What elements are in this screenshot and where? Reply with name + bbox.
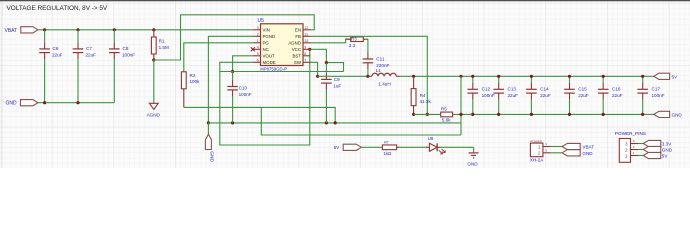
connector J3 POWER_PINS: [615, 131, 646, 162]
resistor R1: [151, 30, 169, 60]
svg-text:C12: C12: [482, 87, 491, 92]
svg-text:R4: R4: [420, 93, 426, 98]
node junction C16 bottom: [602, 113, 605, 116]
node junction VIN-R1: [152, 28, 155, 31]
wire J3 pin 1: [638, 155, 643, 157]
svg-text:2: 2: [545, 149, 547, 153]
resistor R4: [411, 76, 431, 114]
svg-text:VOUT: VOUT: [263, 53, 276, 58]
svg-text:22uF: 22uF: [578, 93, 589, 98]
power flag VBAT J2: [562, 143, 594, 149]
wire sense drop: [460, 76, 462, 135]
svg-text:C6: C6: [53, 46, 59, 51]
wire MODE loop: [220, 49, 310, 145]
node junction C16 top: [602, 75, 605, 78]
svg-text:100nF: 100nF: [482, 93, 495, 98]
svg-text:22uF: 22uF: [612, 93, 623, 98]
connector J2 XH-2A: [530, 139, 551, 162]
svg-text:GND: GND: [467, 161, 478, 166]
svg-text:L1: L1: [376, 68, 382, 73]
node junction C11-SW: [366, 75, 369, 78]
svg-text:GND: GND: [672, 113, 683, 118]
node junction R2-gnd: [334, 121, 337, 124]
svg-text:8: 8: [304, 52, 306, 56]
wire VIN rail: [38, 29, 253, 31]
svg-text:GND: GND: [208, 151, 214, 162]
svg-text:1.4uH: 1.4uH: [378, 82, 390, 87]
svg-text:GND: GND: [662, 147, 673, 152]
svg-text:VCC: VCC: [292, 47, 301, 52]
svg-text:3: 3: [633, 139, 635, 143]
svg-text:R1: R1: [159, 39, 165, 44]
svg-text:C7: C7: [86, 46, 92, 51]
node junction C15 bottom: [568, 113, 571, 116]
svg-text:1: 1: [545, 142, 547, 146]
resistor R7: [382, 141, 399, 156]
integrated circuit U5 MP8759GD-P: [251, 18, 311, 71]
node junction VIN-C8: [113, 28, 116, 31]
svg-text:5V: 5V: [334, 145, 341, 150]
power flag 3.3V J3: [643, 140, 672, 146]
wire R7 to LED: [399, 146, 426, 148]
resistor R2: [181, 72, 200, 108]
wire output rail: [400, 75, 654, 77]
svg-text:100nF: 100nF: [239, 92, 252, 97]
svg-text:POWER_PINS: POWER_PINS: [615, 131, 646, 136]
node junction sense-bot: [459, 113, 462, 116]
ground flag GND rotated: [205, 123, 214, 163]
svg-text:1: 1: [538, 144, 541, 149]
LED U6: [426, 136, 445, 154]
wire GND rail left: [38, 102, 114, 104]
svg-text:4: 4: [257, 45, 259, 49]
node junction VIN-C6: [43, 28, 46, 31]
svg-text:10: 10: [304, 39, 308, 43]
wire LED to GND: [441, 147, 474, 153]
svg-text:22uF: 22uF: [86, 53, 97, 58]
ground AGND: [147, 60, 161, 117]
wire VCC: [311, 49, 344, 71]
node junction VCC-C9: [325, 61, 328, 64]
inductor L1: [368, 68, 400, 86]
svg-text:C8: C8: [123, 46, 129, 51]
power flag GND output: [654, 111, 683, 117]
wire lower link A: [261, 107, 461, 135]
svg-text:VOLTAGE REGULATION, 8V -> 5V: VOLTAGE REGULATION, 8V -> 5V: [7, 5, 108, 12]
wire R2 to ground rail: [184, 107, 335, 123]
capacitor C6: [39, 30, 62, 103]
wire PGND drop: [208, 36, 253, 123]
capacitor C16: [598, 76, 623, 114]
svg-text:11: 11: [304, 32, 308, 36]
node junction C14 top: [530, 75, 533, 78]
svg-text:3.3V: 3.3V: [662, 141, 672, 146]
resistor R5: [441, 106, 453, 122]
node junction GND-C7: [76, 101, 79, 104]
svg-text:MODE: MODE: [263, 60, 276, 65]
wire VOUT drop: [233, 56, 253, 72]
svg-text:22uF: 22uF: [52, 53, 63, 58]
node junction SW rail: [316, 75, 319, 78]
svg-text:6: 6: [257, 58, 259, 62]
node junction C17 top: [641, 75, 644, 78]
svg-text:100nF: 100nF: [122, 53, 135, 58]
svg-text:PGND: PGND: [263, 34, 276, 39]
svg-text:1.5M: 1.5M: [159, 45, 169, 50]
svg-text:3.3: 3.3: [349, 43, 356, 48]
svg-text:3: 3: [257, 26, 259, 30]
svg-text:MP8759GD-P: MP8759GD-P: [260, 66, 287, 71]
svg-text:VBAT: VBAT: [5, 28, 18, 34]
sheet title: [7, 5, 108, 12]
svg-text:1: 1: [625, 153, 628, 158]
capacitor C7: [73, 30, 96, 103]
svg-text:5V: 5V: [672, 74, 679, 79]
svg-text:1: 1: [257, 39, 259, 43]
svg-text:1kΩ: 1kΩ: [383, 151, 392, 156]
node junction GND-C6: [43, 101, 46, 104]
svg-text:5: 5: [257, 52, 259, 56]
node junction C17 bottom: [641, 113, 644, 116]
svg-text:GND: GND: [6, 101, 18, 107]
power flag GND J2: [562, 150, 593, 156]
svg-text:AGND: AGND: [147, 112, 161, 117]
svg-text:2: 2: [633, 145, 635, 149]
power flag GND left: [6, 100, 39, 107]
svg-text:2: 2: [538, 151, 541, 156]
svg-text:22uF: 22uF: [540, 93, 551, 98]
svg-text:AGND: AGND: [288, 40, 301, 45]
svg-text:BST: BST: [292, 53, 301, 58]
node junction FB divider: [426, 113, 429, 116]
svg-text:NC: NC: [263, 47, 269, 52]
capacitor C11: [363, 53, 390, 77]
wire J3 pin 3: [638, 143, 643, 145]
wire R3 to C11: [367, 39, 369, 52]
resistor R3: [346, 36, 368, 48]
svg-text:100nF: 100nF: [652, 93, 665, 98]
svg-text:EN: EN: [295, 27, 301, 32]
wire J2 pin1: [551, 146, 562, 148]
node junction VCC-MODE: [308, 48, 311, 51]
node junction VOUT-C10: [231, 70, 234, 73]
power flag GND J3: [643, 146, 672, 152]
svg-text:U5: U5: [258, 18, 265, 24]
power flag 5V J3: [643, 152, 668, 158]
node junction C15 top: [568, 75, 571, 78]
svg-text:C9: C9: [334, 77, 340, 82]
node junction out-R4: [412, 75, 415, 78]
capacitor C10: [227, 72, 252, 123]
node junction R4 bottom: [412, 113, 415, 116]
svg-text:SW: SW: [294, 60, 302, 65]
wire SW rail: [318, 75, 368, 77]
svg-text:C13: C13: [508, 87, 517, 92]
svg-text:41.2k: 41.2k: [420, 99, 432, 104]
svg-text:22uF: 22uF: [508, 93, 519, 98]
capacitor C14: [526, 76, 551, 114]
wire J3 pin 2: [638, 149, 643, 151]
svg-text:R3: R3: [351, 36, 357, 41]
svg-text:VBAT: VBAT: [582, 145, 594, 150]
svg-text:C10: C10: [239, 86, 248, 91]
svg-text:R7: R7: [384, 141, 388, 145]
svg-text:7: 7: [304, 58, 306, 62]
node junction VIN-C7: [76, 28, 79, 31]
node junction PGND-rail: [207, 121, 210, 124]
svg-text:U6: U6: [428, 136, 434, 141]
capacitor C9: [321, 63, 341, 123]
svg-text:C15: C15: [578, 87, 587, 92]
capacitor C17: [637, 76, 664, 114]
svg-text:2: 2: [257, 32, 259, 36]
power flag 5V output: [654, 73, 678, 79]
wire GND rail middle: [208, 122, 461, 124]
node junction out-sense: [459, 75, 462, 78]
capacitor C12: [468, 76, 495, 114]
capacitor C13: [493, 76, 518, 114]
node junction C9-gnd: [325, 121, 328, 124]
svg-text:FB: FB: [295, 34, 301, 39]
svg-text:GND: GND: [582, 151, 593, 156]
wire J2 pin2: [551, 152, 562, 154]
svg-text:2: 2: [625, 147, 628, 152]
svg-text:C14: C14: [540, 87, 549, 92]
node junction C13 top: [497, 75, 500, 78]
wire EN loop: [154, 15, 314, 60]
wire PG: [184, 43, 253, 72]
power flag VBAT: [5, 27, 39, 34]
svg-text:1: 1: [633, 151, 635, 155]
svg-text:3: 3: [625, 141, 628, 146]
svg-text:XH-2A: XH-2A: [530, 157, 544, 162]
node junction R1 bottom: [152, 58, 155, 61]
node junction C10-gnd: [231, 121, 234, 124]
node junction C14 bottom: [530, 113, 533, 116]
wire SW drop: [311, 62, 318, 76]
svg-text:C16: C16: [612, 87, 621, 92]
svg-text:C17: C17: [652, 87, 661, 92]
svg-text:R5: R5: [441, 106, 447, 111]
node junction C12 top: [471, 75, 474, 78]
svg-text:C11: C11: [376, 57, 385, 62]
svg-text:100k: 100k: [190, 79, 201, 84]
svg-text:1uF: 1uF: [333, 83, 341, 88]
wire FB: [311, 36, 428, 114]
node junction C12 bottom: [471, 113, 474, 116]
capacitor C15: [564, 76, 589, 114]
ground GND LED: [467, 153, 478, 167]
power flag 5V LED: [334, 144, 382, 150]
svg-text:12: 12: [304, 26, 308, 30]
svg-text:5V: 5V: [662, 153, 669, 158]
svg-text:5.6k: 5.6k: [442, 118, 451, 123]
wire AGND to snubber: [311, 39, 351, 43]
svg-text:R2: R2: [190, 73, 196, 78]
svg-text:VIN: VIN: [263, 27, 270, 32]
wire VOUT-VCC link: [220, 71, 344, 73]
svg-text:PG: PG: [263, 40, 270, 45]
capacitor C8: [109, 30, 135, 103]
wire feedback bottom rail: [414, 113, 654, 115]
node junction C13 bottom: [497, 113, 500, 116]
svg-text:9: 9: [304, 45, 306, 49]
